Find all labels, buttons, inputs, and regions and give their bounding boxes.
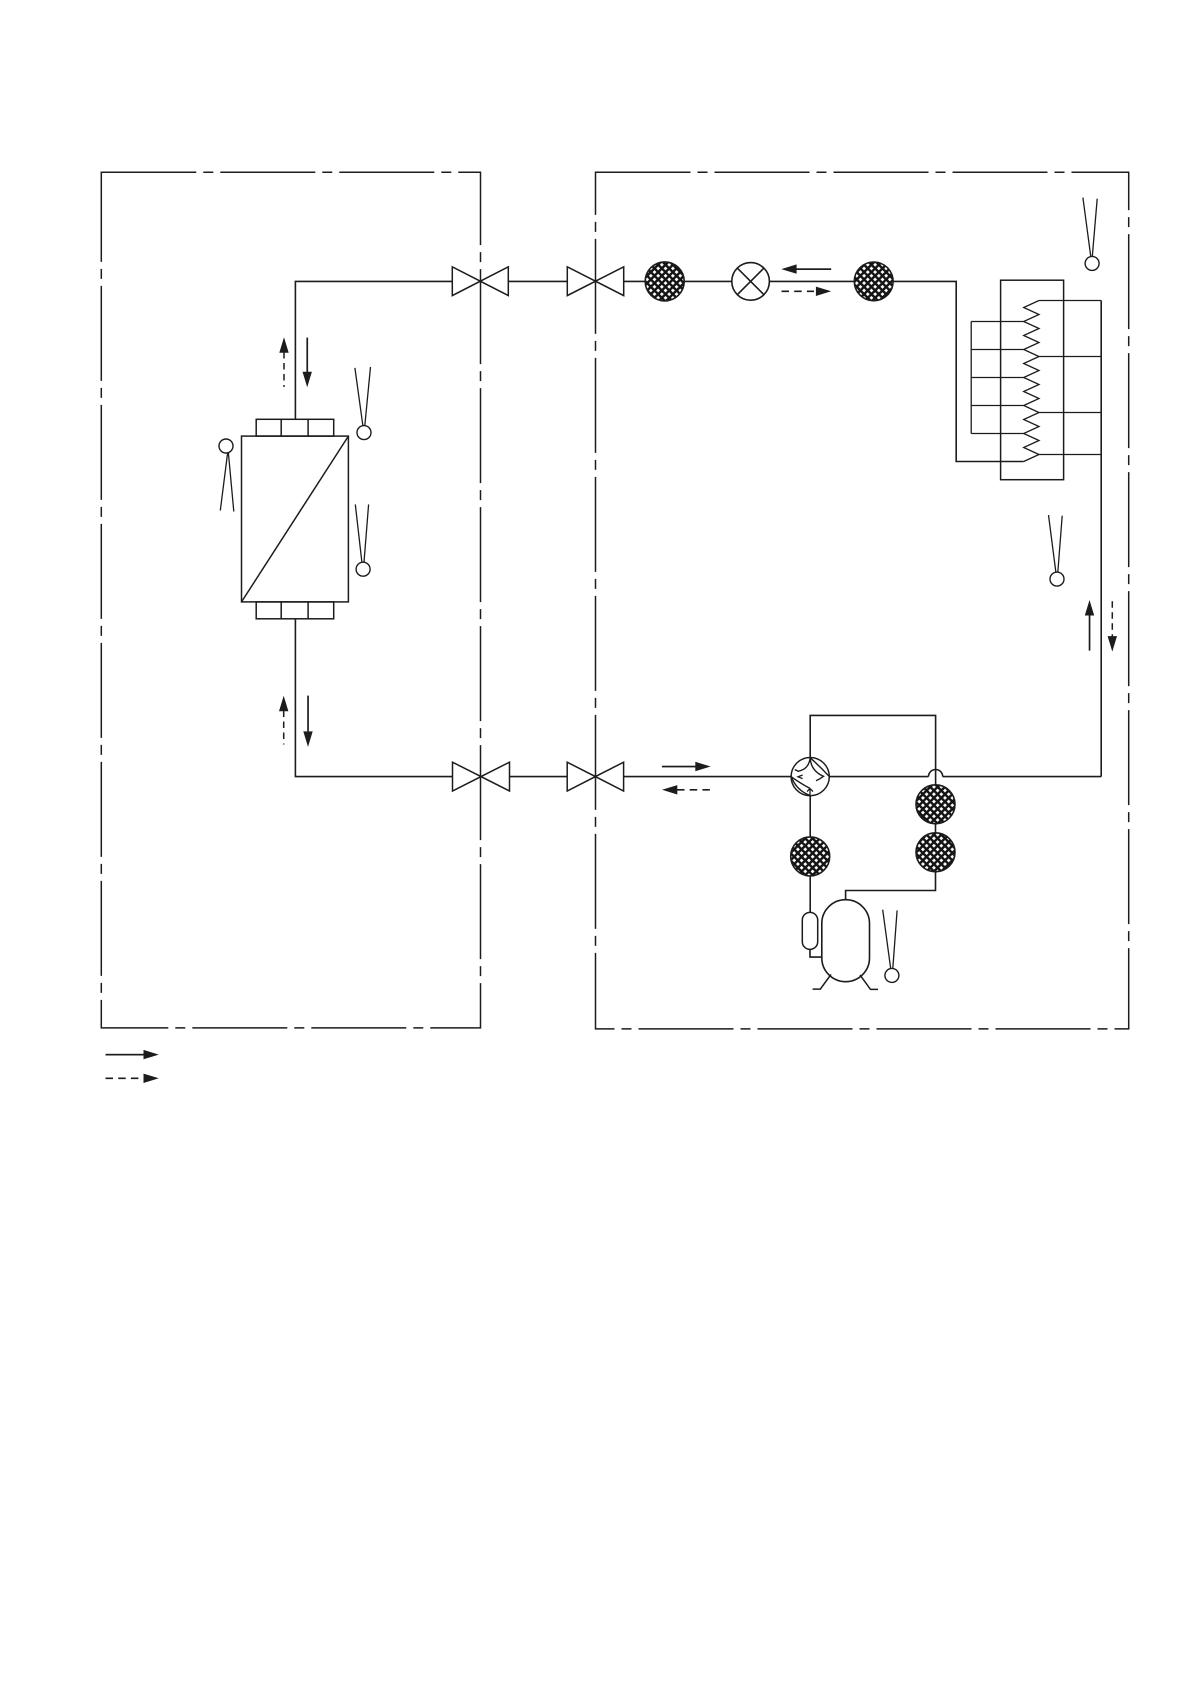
legend arrow cooling (solid) [106,1050,159,1059]
wire: four-way valve bottom port to strainer S5 [809,796,811,837]
wire: strainer S4 to compressor suction top [846,872,936,900]
wire: crossover to right riser corner [943,776,1101,778]
outdoor coil right header lines [1039,301,1101,455]
legend arrow heating (dashed) [106,1074,159,1083]
wire: gas line from indoor HX bottom to valve V3 [295,619,452,777]
wire: valve V4 to four-way valve left port [624,776,791,778]
arrow heating up (indoor gas pipe, dashed) [279,696,288,745]
service valve V4 [567,762,623,791]
strainer S1 [645,262,684,301]
wire: between valve V1 and valve V2 [508,280,567,282]
wire: strainer S1 to expansion valve [684,280,732,282]
wire: four-way valve right port to crossover [829,776,928,778]
outdoor unit boundary [596,172,1129,1029]
outdoor coil zigzag [1024,301,1039,462]
service valve V1 [452,267,508,296]
wire: strainer S5 to accumulator [809,876,811,913]
indoor unit boundary [101,172,480,1028]
wire: right riser from outdoor coil to gas pipe [1100,301,1102,777]
arrow cooling down (indoor liquid pipe) [303,338,312,388]
wire: expansion valve to strainer S2 [769,280,854,282]
thermistor indoor left [219,439,234,512]
compressor left leg [813,975,831,990]
arrow heating flow right (below expansion valve, dashed) [782,287,832,296]
wire between strainer S3 and S4 [935,824,937,833]
four-way valve [791,758,829,796]
compressor right leg [860,975,878,990]
arrow cooling up (right riser) [1085,600,1094,651]
wire: valve V2 to strainer S1 [624,280,646,282]
arrow cooling right (gas pipe to 4-way valve) [662,762,711,771]
strainer S5 (left branch above accumulator) [791,837,830,876]
service valve V2 [567,267,623,296]
wire: between valve V3 and valve V4 [510,776,568,778]
wire: strainer S2 to outdoor coil feed [893,281,1024,461]
thermistor outdoor suction [1049,515,1065,586]
service valve V3 [453,762,510,791]
arrow heating up (indoor liquid pipe, dashed) [279,337,288,387]
accumulator [802,912,817,949]
wire crossover hop over vertical line [929,769,943,776]
outdoor heat exchanger fin block [1001,280,1064,480]
strainer S4 (lower right branch) [916,833,955,872]
thermistor compressor discharge [883,910,899,983]
wire: liquid line from indoor HX top to valve V1 [295,281,452,419]
thermistor outdoor coil top [1083,198,1099,271]
expansion valve PMV [732,263,770,301]
wire: four-way valve top loop to crossover riser [810,715,935,784]
strainer S2 [854,262,893,301]
indoor HX bottom flange [256,602,334,619]
indoor heat exchanger body [242,419,349,619]
arrow heating left (gas pipe, dashed) [662,785,711,794]
thermistor indoor lower right [355,504,370,576]
indoor HX top flange [256,419,334,436]
outdoor coil left header bus [970,322,972,434]
arrow heating down (right riser, dashed) [1108,601,1117,651]
strainer S3 (upper right branch) [916,785,955,824]
compressor shell [822,900,870,982]
arrow cooling flow left (above expansion valve) [781,264,831,273]
outdoor coil left header lines [971,322,1024,434]
thermistor indoor upper right [355,367,371,440]
wire: accumulator to compressor shell [810,949,822,957]
arrow cooling down (indoor gas pipe) [303,696,312,747]
